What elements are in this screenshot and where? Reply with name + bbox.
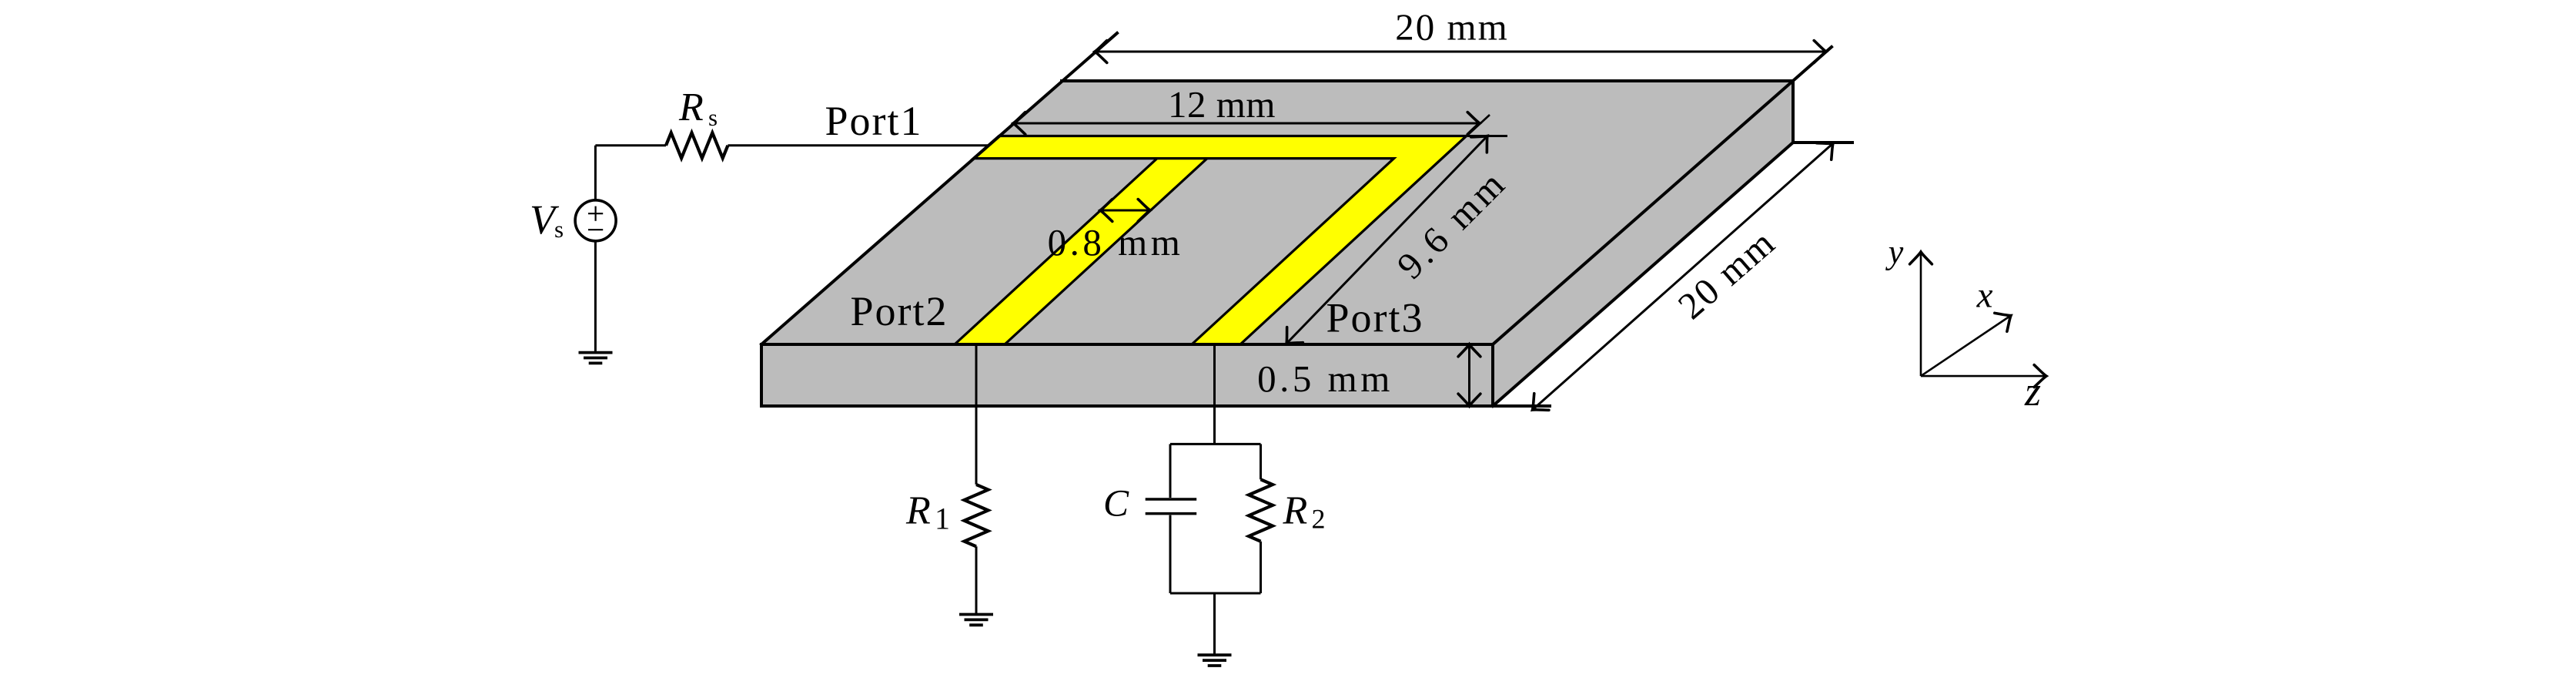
svg-text:s: s [554, 216, 564, 243]
svg-text:R: R [1283, 489, 1308, 533]
svg-text:Port3: Port3 [1326, 295, 1423, 341]
svg-text:x: x [1976, 276, 1993, 316]
svg-text:Port2: Port2 [850, 288, 948, 334]
svg-text:C: C [1103, 482, 1129, 525]
svg-text:20 mm: 20 mm [1395, 6, 1508, 49]
svg-text:R: R [905, 489, 931, 533]
svg-text:s: s [708, 104, 718, 131]
svg-text:Port1: Port1 [825, 98, 922, 144]
svg-text:R: R [678, 86, 704, 129]
svg-text:2: 2 [1312, 504, 1326, 535]
svg-text:y: y [1885, 233, 1904, 271]
svg-text:1: 1 [935, 502, 950, 536]
svg-text:12 mm: 12 mm [1168, 83, 1276, 126]
svg-text:0.5 mm: 0.5 mm [1257, 357, 1393, 400]
svg-text:z: z [2024, 368, 2041, 414]
svg-text:0.8 mm: 0.8 mm [1048, 221, 1184, 263]
